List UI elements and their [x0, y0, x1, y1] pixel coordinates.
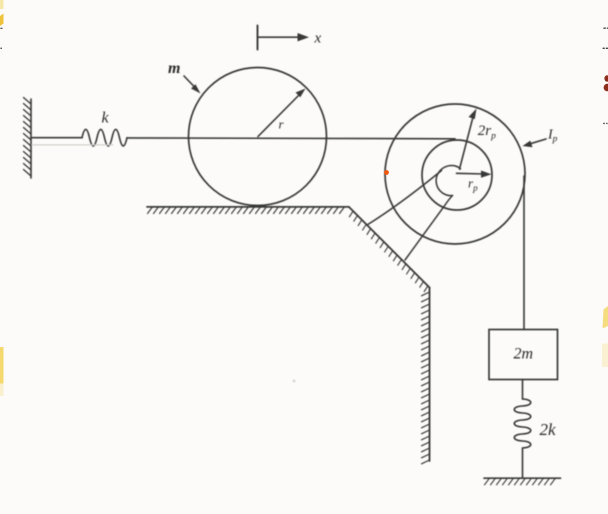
radius arrow 2rp — [460, 109, 477, 170]
block 2m — [489, 330, 558, 380]
axle curl at pulley center — [436, 165, 460, 195]
left edge scan artifacts — [0, 0, 4, 396]
orange dot artifact on pulley — [384, 170, 389, 175]
spring 2k — [514, 380, 531, 478]
radius arrow rp — [457, 171, 492, 178]
strut A (bracket from wall to pulley axle) — [367, 171, 442, 226]
x coordinate axis — [258, 26, 310, 50]
svg-text:x: x — [314, 31, 322, 47]
wire (rod from wall to spring) — [31, 137, 82, 139]
ground (horizontal hatched surface under mass) — [147, 207, 349, 214]
svg-text:2m: 2m — [514, 346, 534, 363]
svg-text:k: k — [102, 110, 110, 127]
wall (diagonal hatched surface) — [349, 207, 430, 292]
wall (left fixed support) — [24, 98, 32, 179]
faint smudge artifact — [292, 379, 295, 382]
spring k — [82, 129, 127, 146]
cord from pulley to block 2m — [523, 176, 525, 330]
right edge scan artifacts — [602, 28, 608, 368]
wall (vertical hatched surface) — [422, 288, 430, 464]
pulley outer circle (2rp) — [385, 104, 525, 244]
arrow to mass m — [184, 76, 201, 94]
strut B (bracket from wall to pulley axle) — [405, 196, 453, 261]
faint scan line under spring — [32, 144, 113, 146]
arrow to Ip (pulley inertia) — [523, 139, 547, 147]
wire (rod from spring through mass to pulley) — [127, 137, 455, 140]
mass m circle (rolling disk) — [189, 68, 327, 206]
ground (bottom hatched support of spring 2k) — [484, 478, 561, 485]
svg-text:2k: 2k — [540, 420, 557, 439]
pulley inner circle (rp) — [422, 140, 492, 210]
radius arrow r — [258, 89, 306, 137]
svg-text:m: m — [168, 60, 180, 77]
